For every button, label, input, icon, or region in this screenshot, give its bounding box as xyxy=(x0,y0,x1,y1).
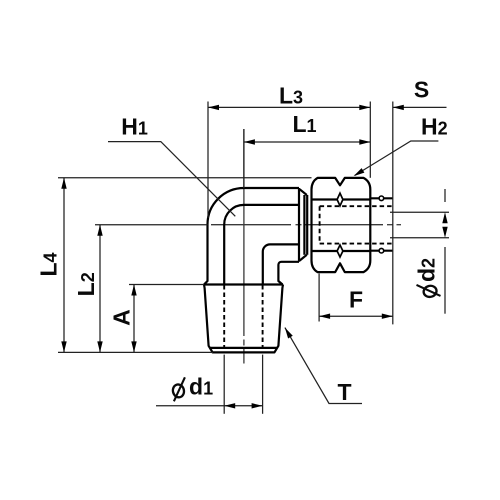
dimension L2 xyxy=(95,224,208,226)
nut bottom face xyxy=(312,251,371,272)
dimension L3 xyxy=(207,102,209,219)
nut chamfer diamond top xyxy=(337,193,343,206)
svg-text:T: T xyxy=(337,379,351,405)
dimension phi d2 xyxy=(390,211,449,213)
nut top face xyxy=(312,178,371,200)
sleeve chamfer diagonals xyxy=(300,189,307,195)
dimension phi d1 xyxy=(223,355,225,414)
arm bottom edge + step to thread flare xyxy=(278,262,299,285)
svg-text:S: S xyxy=(414,77,429,103)
tube weep hole bottom xyxy=(379,248,384,253)
svg-text:F: F xyxy=(349,287,363,313)
dimension A xyxy=(129,284,204,286)
nut chamfer diamond bottom xyxy=(337,245,343,257)
sleeve washer xyxy=(303,195,305,255)
dimension L1 xyxy=(243,129,245,188)
tube stub xyxy=(370,197,392,199)
inner hex profile upper-left xyxy=(224,205,299,285)
elbow body outer profile xyxy=(204,188,299,285)
male taper thread outline xyxy=(204,283,283,285)
dimension L4 xyxy=(58,177,312,179)
thread end chamfer line xyxy=(211,347,277,349)
dimension S xyxy=(392,102,394,325)
bottom extension line xyxy=(58,351,213,353)
nut middle face xyxy=(310,200,312,252)
tube weep hole top xyxy=(379,196,384,201)
dimension F xyxy=(318,274,320,322)
inner hex profile lower-right xyxy=(263,244,299,284)
centerline horizontal (horizontal arm axis) xyxy=(211,224,291,226)
nut internal thread hidden lines xyxy=(320,205,393,207)
body end face xyxy=(298,188,300,262)
svg-text:A: A xyxy=(109,309,135,326)
centerline vertical (vertical arm axis) xyxy=(243,129,245,336)
thread root hidden lines xyxy=(223,285,225,349)
